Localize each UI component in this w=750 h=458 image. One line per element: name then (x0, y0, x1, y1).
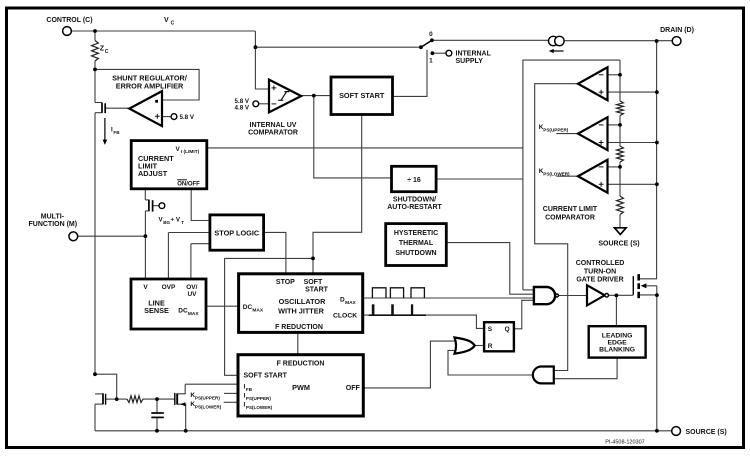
svg-text:OFF: OFF (346, 385, 361, 392)
svg-text:BG: BG (163, 220, 170, 225)
svg-text:V: V (143, 284, 148, 291)
svg-text:DC: DC (178, 308, 188, 315)
svg-text:SOURCE (S): SOURCE (S) (598, 240, 639, 247)
svg-text:FB: FB (113, 130, 120, 135)
svg-text:R: R (488, 343, 493, 350)
svg-text:CONTROLLED: CONTROLLED (576, 260, 625, 267)
svg-text:SUPPLY: SUPPLY (456, 58, 484, 65)
svg-text:COMPARATOR: COMPARATOR (545, 215, 595, 222)
svg-text:MAX: MAX (252, 308, 263, 314)
svg-text:MAX: MAX (345, 300, 356, 306)
svg-text:WITH JITTER: WITH JITTER (278, 306, 325, 315)
svg-text:T: T (181, 220, 184, 225)
svg-text:OVP: OVP (162, 284, 176, 291)
svg-text:PS(UPPER): PS(UPPER) (195, 395, 220, 400)
svg-text:FUNCTION (M): FUNCTION (M) (28, 221, 77, 228)
svg-text:HYSTERETIC: HYSTERETIC (394, 230, 438, 237)
svg-text:DC: DC (243, 304, 253, 311)
svg-text:1: 1 (429, 57, 433, 64)
svg-text:÷ 16: ÷ 16 (407, 177, 421, 184)
svg-text:V: V (176, 146, 181, 153)
svg-text:COMPARATOR: COMPARATOR (248, 130, 298, 137)
svg-text:I (LIMIT): I (LIMIT) (181, 149, 200, 155)
svg-text:GATE DRIVER: GATE DRIVER (576, 277, 623, 284)
svg-text:STOP LOGIC: STOP LOGIC (214, 228, 259, 237)
svg-text:EDGE: EDGE (607, 339, 627, 346)
svg-text:S: S (488, 326, 493, 333)
svg-text:4.8 V: 4.8 V (235, 104, 250, 111)
svg-text:SHUTDOWN: SHUTDOWN (395, 250, 436, 257)
svg-text:SOFT: SOFT (304, 279, 323, 286)
svg-text:5.8 V: 5.8 V (180, 114, 195, 121)
svg-text:THERMAL: THERMAL (399, 240, 434, 247)
svg-text:F REDUCTION: F REDUCTION (275, 324, 323, 331)
svg-text:STOP: STOP (276, 279, 295, 286)
svg-text:SHUTDOWN/: SHUTDOWN/ (393, 196, 436, 203)
svg-text:SOURCE (S): SOURCE (S) (686, 429, 727, 436)
svg-text:START: START (305, 287, 329, 294)
svg-text:BLANKING: BLANKING (599, 347, 635, 354)
svg-text:DRAIN (D): DRAIN (D) (660, 27, 694, 34)
svg-text:INTERNAL: INTERNAL (456, 51, 492, 58)
svg-text:OV/: OV/ (186, 284, 197, 291)
svg-text:SOFT START: SOFT START (339, 91, 385, 100)
svg-text:AUTO-RESTART: AUTO-RESTART (387, 204, 442, 211)
svg-text:PI-4508-120307: PI-4508-120307 (605, 440, 644, 446)
svg-text:CONTROL (C): CONTROL (C) (46, 17, 92, 24)
svg-text:OSCILLATOR: OSCILLATOR (279, 297, 326, 306)
svg-text:CLOCK: CLOCK (333, 312, 357, 319)
svg-text:0: 0 (429, 31, 433, 38)
svg-text:F REDUCTION: F REDUCTION (277, 360, 325, 367)
svg-text:PS(LOWER): PS(LOWER) (543, 171, 570, 176)
svg-text:+ V: + V (171, 217, 181, 224)
svg-text:PWM: PWM (292, 383, 310, 392)
svg-text:ON/OFF: ON/OFF (177, 182, 200, 188)
svg-text:PS(UPPER): PS(UPPER) (543, 127, 568, 132)
svg-text:SENSE: SENSE (144, 306, 169, 315)
svg-text:CURRENT LIMIT: CURRENT LIMIT (543, 206, 598, 213)
svg-text:TURN-ON: TURN-ON (584, 268, 616, 275)
svg-text:PS(LOWER): PS(LOWER) (246, 405, 273, 410)
svg-text:MAX: MAX (188, 311, 199, 317)
svg-text:ERROR AMPLIFIER: ERROR AMPLIFIER (116, 82, 184, 91)
svg-text:V: V (164, 17, 169, 24)
svg-text:MULTI-: MULTI- (41, 213, 65, 220)
svg-text:INTERNAL UV: INTERNAL UV (250, 122, 297, 129)
svg-text:PS(UPPER): PS(UPPER) (246, 396, 271, 401)
svg-text:SOFT START: SOFT START (244, 373, 288, 380)
svg-text:FB: FB (246, 387, 253, 392)
svg-text:C: C (171, 21, 175, 27)
svg-text:ADJUST: ADJUST (138, 169, 168, 178)
svg-text:PS(LOWER): PS(LOWER) (195, 404, 222, 409)
svg-text:C: C (105, 49, 109, 55)
svg-text:Q: Q (505, 326, 510, 333)
svg-text:UV: UV (187, 291, 197, 298)
